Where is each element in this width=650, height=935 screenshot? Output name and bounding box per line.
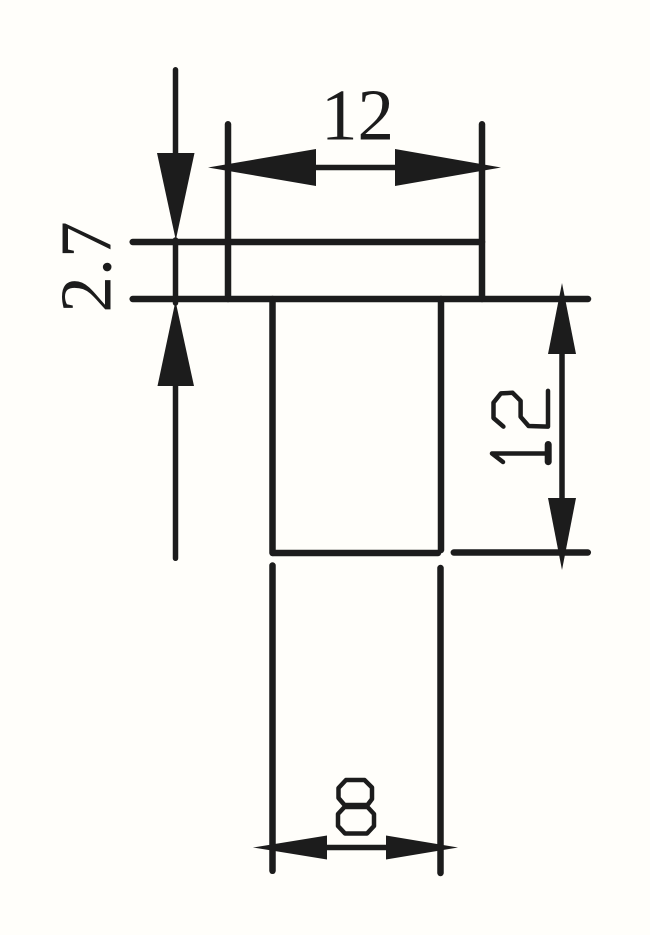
step extension line right bbox=[454, 549, 588, 556]
arrowhead 2.7 up bbox=[158, 301, 195, 386]
svg-text:12: 12 bbox=[321, 75, 394, 156]
arrowhead 2.7 down bbox=[157, 153, 195, 240]
dim 2.7 upper line bbox=[173, 70, 179, 155]
flange right edge / extension line bbox=[479, 124, 486, 299]
body right edge upper bbox=[438, 299, 445, 550]
flange left edge / extension line bbox=[225, 124, 232, 299]
dim line 12 top bbox=[316, 165, 395, 171]
body left edge lower bbox=[269, 566, 276, 871]
step line bbox=[273, 550, 438, 557]
dim line 12 right bbox=[559, 354, 565, 498]
label 8 bottom (stroke font) bbox=[338, 780, 374, 834]
body right edge lower bbox=[437, 568, 444, 873]
arrowhead 8 right bbox=[386, 836, 458, 860]
arrowhead 12 right bottom bbox=[548, 498, 576, 570]
body left edge upper bbox=[269, 299, 276, 553]
flange top line bbox=[133, 239, 482, 246]
svg-text:2.7: 2.7 bbox=[46, 221, 127, 312]
arrowhead 8 left bbox=[253, 836, 327, 860]
arrowhead 12 top right bbox=[395, 149, 501, 186]
arrowhead 12 top left bbox=[208, 149, 316, 186]
digit 1 bbox=[492, 454, 546, 463]
digit 2 bbox=[494, 391, 549, 427]
dim 2.7 connector bbox=[173, 240, 179, 303]
dim 2.7 lower line bbox=[173, 386, 179, 558]
flange bottom line bbox=[133, 296, 588, 303]
arrowhead 12 right top bbox=[548, 283, 576, 354]
label 12 right (stroke font, rotated) bbox=[492, 391, 548, 462]
dim line 8 bottom bbox=[327, 845, 386, 851]
